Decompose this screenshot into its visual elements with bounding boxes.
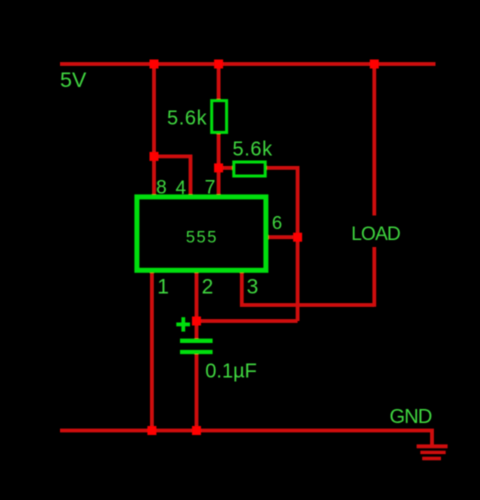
junction 5V rail / LOAD wire <box>370 60 379 69</box>
svg-text:LOAD: LOAD <box>351 224 400 245</box>
wire pin2 node to R2 bottom node <box>197 319 298 323</box>
junction pin 6 / R2 vertical <box>293 233 302 242</box>
wire pin 6 <box>267 235 298 239</box>
wire pin 2 to capacitor top <box>195 270 199 339</box>
ground bar 3 <box>422 457 441 460</box>
svg-text:7: 7 <box>205 177 216 199</box>
svg-text:4: 4 <box>176 178 187 199</box>
svg-text:5.6k: 5.6k <box>233 139 274 161</box>
junction pin 7 / R2 branch <box>214 163 223 172</box>
junction 5V rail / R1 wire <box>214 60 223 69</box>
wire pin 1 to ground rail <box>150 270 154 431</box>
wire LOAD lower segment <box>372 247 376 307</box>
svg-text:3: 3 <box>247 276 259 299</box>
capacitor polarity plus sign <box>176 317 190 331</box>
wire 5V rail to resistor R1 top <box>217 64 221 100</box>
svg-text:1: 1 <box>157 276 169 299</box>
wire bracket to pin 4 <box>154 156 191 197</box>
wire ground rail <box>60 431 432 447</box>
svg-text:GND: GND <box>390 406 432 428</box>
junction pin 8 / pin 4 bracket <box>150 152 159 161</box>
wire LOAD upper segment <box>372 64 376 216</box>
op-amp U1 555 timer body <box>137 197 266 270</box>
capacitor C1 bottom plate <box>180 350 213 354</box>
svg-text:8: 8 <box>156 178 167 199</box>
wire 5V top rail <box>60 62 436 66</box>
junction pin 2 / capacitor top node <box>192 317 201 326</box>
wire pin 8 vertical from 5V rail to chip <box>152 64 156 197</box>
junction 5V rail / pin 8 wire <box>150 60 159 69</box>
wire R2 right down to threshold node <box>267 168 298 321</box>
svg-text:2: 2 <box>202 276 214 299</box>
junction ground rail / pin 1 <box>147 426 156 435</box>
resistor R1 5.6k vertical <box>212 101 227 133</box>
wire R1 bottom to pin 7 <box>217 134 221 198</box>
wire pin7 node to resistor R2 left <box>219 166 233 170</box>
resistor R2 5.6k horizontal <box>234 162 265 176</box>
wire capacitor bottom to ground rail <box>195 354 199 431</box>
wire pin 3 output to LOAD bottom <box>242 270 374 305</box>
ground bar 2 <box>420 451 445 454</box>
capacitor C1 top plate <box>180 339 213 343</box>
ground bar 1 <box>417 444 448 448</box>
svg-text:6: 6 <box>272 212 282 233</box>
svg-text:555: 555 <box>186 228 218 246</box>
svg-text:0.1µF: 0.1µF <box>205 361 257 383</box>
junction ground rail / capacitor <box>192 426 201 435</box>
svg-text:5V: 5V <box>60 68 87 92</box>
svg-text:5.6k: 5.6k <box>167 108 208 130</box>
